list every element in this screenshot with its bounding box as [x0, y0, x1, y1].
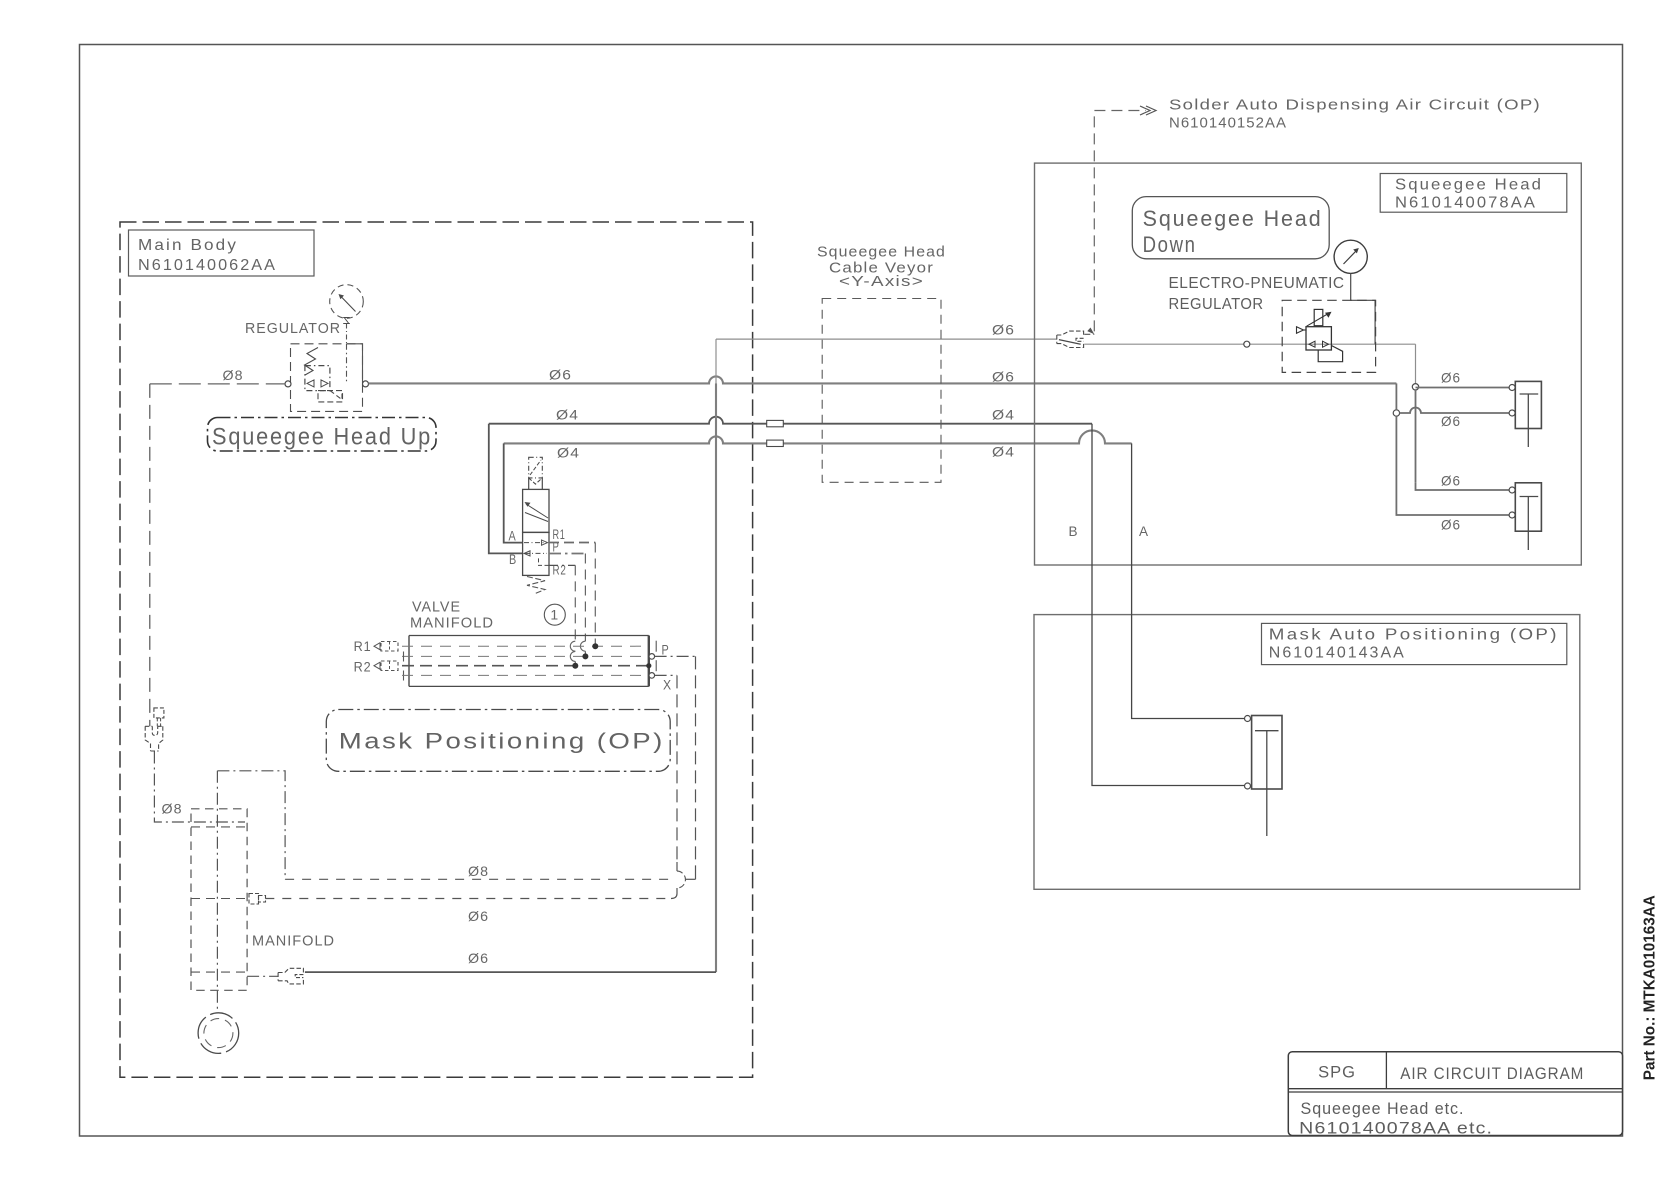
- svg-text:Squeegee Head etc.: Squeegee Head etc.: [1301, 1100, 1465, 1118]
- wire: coupling to manifold inlet (dash-dot): [154, 752, 245, 823]
- junction dot R2 row right: [646, 663, 651, 668]
- pressure gauge G2: [1334, 240, 1367, 273]
- svg-text:Ø4: Ø4: [992, 444, 1015, 460]
- svg-text:B: B: [509, 551, 517, 567]
- wire: X pilot line to manifold port: [265, 898, 671, 900]
- wire: O6 main to cyl1 bottom port (bump over EP drop): [1395, 383, 1397, 409]
- svg-text:A: A: [509, 528, 517, 544]
- wire: B line down to mask cylinder bottom: [1092, 424, 1245, 786]
- wire: O4 line B-side valve to mask cylinder (dark): [489, 417, 1092, 424]
- X line bump over O8 line end: [677, 871, 685, 888]
- svg-text:P: P: [662, 642, 670, 658]
- cylinder CYL2: [1509, 483, 1541, 550]
- Mask Auto Positioning enclosure box: [1034, 615, 1580, 890]
- svg-text:Squeegee Head: Squeegee Head: [1395, 177, 1543, 194]
- svg-text:Ø4: Ø4: [992, 407, 1015, 423]
- regulator outlet port circle: [363, 381, 369, 387]
- air source silencer: [198, 1013, 239, 1054]
- manifold X port connector: [249, 894, 266, 905]
- svg-text:N610140143AA: N610140143AA: [1269, 645, 1406, 662]
- svg-text:P: P: [553, 539, 560, 555]
- junction dot R1/manifold: [592, 643, 598, 649]
- wire: O8 pilot line to valve manifold P (bump over X line): [285, 878, 669, 880]
- Mask Auto Positioning label box: [1262, 623, 1567, 664]
- svg-text:N610140078AA etc.: N610140078AA etc.: [1299, 1120, 1493, 1138]
- Main Body label box: [129, 230, 315, 276]
- svg-text:Ø6: Ø6: [1441, 413, 1461, 429]
- ELECTRO-PNEUMATIC REGULATOR label: [1169, 275, 1345, 313]
- svg-text:Mask Positioning (OP): Mask Positioning (OP): [339, 729, 665, 754]
- regulator symbol internals: [305, 344, 363, 402]
- svg-text:REGULATOR: REGULATOR: [1169, 296, 1264, 313]
- wire: pilot supply from manifold row2 to bottom O8 line: [655, 655, 696, 657]
- wire: EP output down to junction: [1415, 344, 1417, 383]
- wire: O8 supply dashed line from regulator to left drop: [150, 383, 285, 385]
- svg-text:Ø6: Ø6: [549, 367, 572, 383]
- svg-text:REGULATOR: REGULATOR: [245, 321, 341, 337]
- Squeegee Head Up callout box: [208, 418, 437, 452]
- wire: down to cyl2 bottom port: [1396, 416, 1512, 515]
- svg-text:<Y-Axis>: <Y-Axis>: [839, 274, 924, 290]
- valve V1 return spring: [527, 577, 545, 595]
- svg-text:R1: R1: [354, 638, 372, 654]
- svg-text:Solder Auto Dispensing Air Cir: Solder Auto Dispensing Air Circuit (OP): [1169, 98, 1541, 114]
- pressure gauge G1 (dashed circle w/ needle): [330, 285, 364, 344]
- Squeegee Head enclosure box: [1035, 163, 1582, 565]
- regulator R (dashed enclosure): [291, 344, 363, 412]
- wire: main riser from bottom manifold up to squeegee-down line: [715, 339, 717, 383]
- wire: down-branch to cyl2 top port: [1416, 483, 1513, 490]
- manifold port circle row2: [649, 654, 655, 660]
- valve manifold block: [409, 636, 649, 687]
- svg-text:MANIFOLD: MANIFOLD: [252, 934, 335, 950]
- svg-text:Part No.: MTKA010163AA: Part No.: MTKA010163AA: [1642, 895, 1659, 1080]
- svg-text:SPG: SPG: [1318, 1064, 1356, 1082]
- svg-text:1: 1: [550, 607, 559, 623]
- svg-text:Ø6: Ø6: [1441, 517, 1461, 533]
- svg-text:X: X: [663, 677, 672, 693]
- svg-text:Ø8: Ø8: [468, 863, 489, 879]
- EP regulator enclosure (dashed): [1282, 300, 1375, 372]
- valve V1 body (two position boxes): [523, 489, 549, 575]
- R2 exhaust silencer: [354, 659, 398, 675]
- cylinder CYL1: [1509, 381, 1541, 447]
- svg-text:N610140152AA: N610140152AA: [1169, 116, 1287, 132]
- manifold left port ticks: [403, 652, 405, 681]
- manifold port circle rowX: [649, 673, 655, 679]
- svg-text:Ø6: Ø6: [992, 369, 1015, 385]
- bottom manifold block (dashed): [191, 809, 247, 991]
- svg-text:N610140062AA: N610140062AA: [138, 257, 277, 274]
- svg-text:Mask Auto Positioning (OP): Mask Auto Positioning (OP): [1269, 627, 1559, 644]
- wire: O6 line riser top to coupling (squeegee head down supply): [716, 338, 1057, 340]
- wire: branch to solder auto dispensing (dashed w/ arrow): [1084, 106, 1156, 334]
- mask cylinder CYL3: [1245, 716, 1283, 837]
- manifold row P: [402, 655, 649, 657]
- svg-text:VALVE: VALVE: [412, 600, 461, 616]
- svg-text:Ø6: Ø6: [468, 908, 489, 924]
- wire: O4 line A-side valve to mask cylinder (gray): [504, 430, 1132, 443]
- wire: gauge tap: [1351, 273, 1375, 344]
- svg-text:Ø8: Ø8: [223, 367, 244, 383]
- balloon callout 1: [544, 604, 565, 625]
- svg-text:Ø4: Ø4: [556, 407, 579, 423]
- wire: A line down to mask cylinder top: [1132, 443, 1245, 718]
- svg-text:Ø6: Ø6: [1441, 370, 1461, 386]
- svg-text:A: A: [1139, 523, 1149, 539]
- svg-text:AIR CIRCUIT DIAGRAM: AIR CIRCUIT DIAGRAM: [1400, 1065, 1584, 1083]
- svg-text:Squeegee Head Up: Squeegee Head Up: [212, 424, 432, 451]
- junction dot R2/manifold: [572, 663, 578, 669]
- Main Body enclosure (dashed) N610140062AA: [120, 222, 753, 1077]
- wire: junction to cyl1 top port: [1416, 388, 1513, 483]
- quick coupling C2 (horizontal): [278, 968, 303, 984]
- Squeegee Head Down callout box: [1132, 197, 1329, 259]
- manifold row R1: [402, 645, 649, 647]
- svg-text:MANIFOLD: MANIFOLD: [410, 616, 494, 632]
- title block: [1288, 1052, 1622, 1138]
- Squeegee Head label box: [1380, 174, 1567, 213]
- inline port circle: [1244, 341, 1250, 347]
- junction circle J2: [1393, 410, 1399, 416]
- solder dispensing label: [1169, 98, 1541, 132]
- svg-text:Ø6: Ø6: [1441, 473, 1461, 489]
- svg-text:R2: R2: [354, 659, 372, 675]
- junction dot P/manifold: [582, 653, 588, 659]
- svg-text:N610140078AA: N610140078AA: [1395, 195, 1537, 212]
- manifold row X: [402, 674, 649, 676]
- svg-text:Down: Down: [1143, 232, 1197, 257]
- wire: R2 exhaust line valve to manifold: [549, 564, 575, 566]
- VALVE MANIFOLD label: [410, 600, 494, 632]
- wire: manifold to coupling C2: [247, 975, 278, 977]
- wire: valve B-port riser from O4 line 1: [489, 424, 523, 554]
- manifold R2 port tick: [655, 660, 657, 671]
- manifold P port tick: [655, 641, 657, 652]
- quick coupling C1 (vertical): [145, 708, 164, 751]
- EP regulator symbol: [1297, 309, 1343, 361]
- svg-text:Ø8: Ø8: [162, 801, 183, 817]
- wire: O6 into EP regulator: [1084, 343, 1415, 345]
- solenoid pilot of valve V1: [529, 457, 543, 489]
- Mask Positioning (OP) callout box: [326, 710, 670, 772]
- svg-text:Squeegee Head: Squeegee Head: [817, 245, 946, 261]
- wire: valve A-port riser from O4 line 2: [504, 443, 523, 542]
- wire: R1 exhaust line valve to manifold: [549, 542, 595, 544]
- svg-text:B: B: [1069, 523, 1079, 539]
- wire: P supply line valve to manifold: [549, 553, 585, 555]
- svg-text:ELECTRO-PNEUMATIC: ELECTRO-PNEUMATIC: [1169, 275, 1345, 292]
- svg-text:Squeegee Head: Squeegee Head: [1143, 206, 1323, 231]
- quick coupling C3 (squeegee head inlet): [1057, 331, 1084, 347]
- Squeegee Head Cable Veyor enclosure (dashed): [822, 299, 941, 483]
- wire: manifold center line: [216, 771, 218, 1013]
- tube joint on O4 line 2: [767, 440, 784, 446]
- wire: O6 supply line manifold to riser: [305, 971, 716, 973]
- junction circle J1: [1412, 384, 1418, 390]
- R1 exhaust silencer: [354, 638, 398, 654]
- wire: manifold top link to O8 pilot line: [217, 771, 285, 880]
- regulator inlet port circle: [285, 381, 291, 387]
- wire: O6 main line from regulator to right cylinders (bump at riser): [369, 376, 1397, 383]
- svg-text:Ø6: Ø6: [992, 322, 1015, 338]
- wire: left vertical drop to coupling: [149, 384, 151, 726]
- cable veyor label: [817, 245, 946, 291]
- tube joint on O4 line 1: [767, 420, 784, 426]
- svg-text:R2: R2: [553, 562, 567, 578]
- wire: X port line down: [655, 674, 677, 676]
- manifold row R2 (heavy): [402, 665, 649, 667]
- svg-text:Ø6: Ø6: [468, 950, 489, 966]
- svg-text:Main Body: Main Body: [138, 237, 238, 254]
- svg-text:Ø4: Ø4: [557, 445, 580, 461]
